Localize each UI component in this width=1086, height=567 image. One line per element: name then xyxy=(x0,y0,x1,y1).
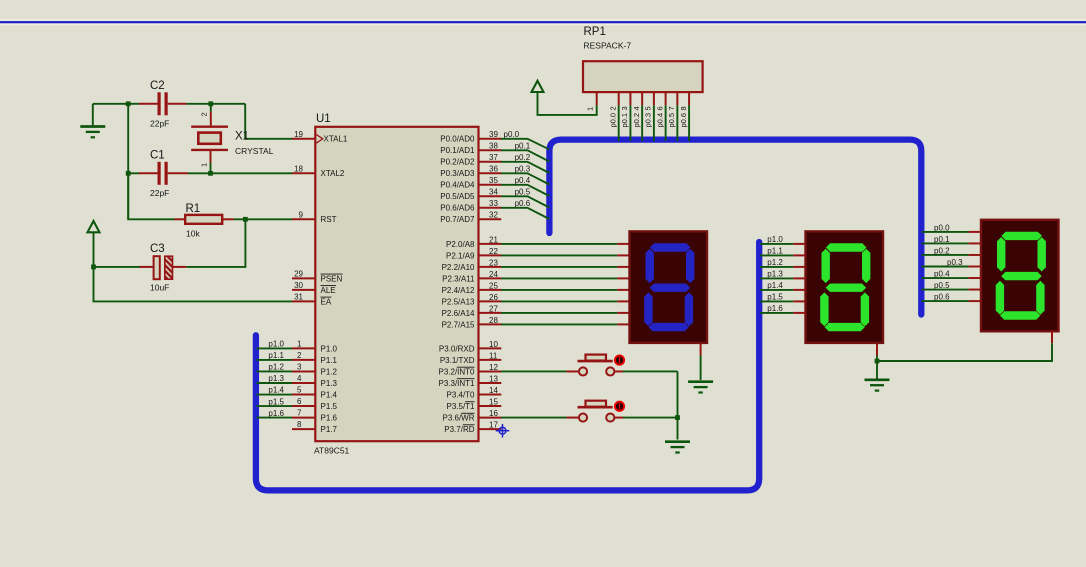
wire bus to DISP3 pin 2, net p0.1 xyxy=(922,242,969,244)
wire bus to DISP2 pin 5, net p1.4 xyxy=(760,289,793,291)
U1 right pin names xyxy=(438,135,475,434)
svg-text:p1.4: p1.4 xyxy=(268,386,284,395)
svg-text:R1: R1 xyxy=(186,203,201,215)
svg-text:31: 31 xyxy=(294,292,303,301)
svg-text:P1.1: P1.1 xyxy=(321,356,338,365)
svg-text:P1.6: P1.6 xyxy=(321,413,338,422)
7-segment display DISP1 body xyxy=(630,231,708,343)
svg-text:RESPACK-7: RESPACK-7 xyxy=(584,41,632,51)
svg-text:P3.3/INT1: P3.3/INT1 xyxy=(438,379,475,388)
wire bus to DISP3 pin 3, net p0.2 xyxy=(922,254,969,256)
svg-text:23: 23 xyxy=(489,258,498,267)
svg-text:4: 4 xyxy=(632,106,641,110)
svg-text:32: 32 xyxy=(489,211,498,220)
wire bus to DISP3 pin 4, net p0.3 xyxy=(922,265,969,267)
RP1 pin 8 stub + wire to bus, net p0.6 xyxy=(688,92,690,105)
wire ground to node A xyxy=(93,103,128,105)
svg-text:p1.1: p1.1 xyxy=(268,351,284,360)
wire P2.2 pin23 to 7-seg DISP1 xyxy=(501,266,617,268)
DISP1 digit segments xyxy=(644,243,694,331)
svg-text:C2: C2 xyxy=(150,80,165,92)
svg-text:2: 2 xyxy=(609,106,618,110)
wire C1 to XTAL2 pin xyxy=(188,172,292,174)
wire node to C1 xyxy=(128,172,139,174)
RP1 pin 2 stub + wire to bus, net p0.0 xyxy=(618,92,620,105)
wire P2.0 pin21 to 7-seg DISP1 xyxy=(501,243,617,245)
svg-text:p1.0: p1.0 xyxy=(767,235,783,244)
power terminal arrow (RP1) xyxy=(532,81,544,92)
capacitor C2 xyxy=(139,92,186,115)
wire R1 to RST xyxy=(234,218,292,220)
ground (DISP1) xyxy=(688,380,713,383)
svg-text:p1.5: p1.5 xyxy=(268,397,284,406)
svg-text:9: 9 xyxy=(299,210,304,219)
svg-text:P2.2/A10: P2.2/A10 xyxy=(442,263,475,272)
svg-text:U1: U1 xyxy=(316,113,331,125)
svg-text:1: 1 xyxy=(297,339,302,348)
U1 pin numbers left xyxy=(294,130,303,429)
svg-text:P0.1/AD1: P0.1/AD1 xyxy=(440,146,475,155)
svg-text:C1: C1 xyxy=(150,150,165,162)
svg-text:7: 7 xyxy=(667,106,676,110)
svg-text:7: 7 xyxy=(297,409,302,418)
svg-text:p1.2: p1.2 xyxy=(767,258,783,267)
svg-text:ALE: ALE xyxy=(321,286,336,295)
svg-text:p1.2: p1.2 xyxy=(268,363,284,372)
ground (top-left) xyxy=(92,104,94,126)
svg-text:p0.6: p0.6 xyxy=(515,199,531,208)
svg-text:p0.4: p0.4 xyxy=(655,113,664,128)
wire bus to DISP3 pin 7, net p0.6 xyxy=(922,300,969,302)
DISP3 digit segments xyxy=(996,232,1046,320)
svg-text:P2.5/A13: P2.5/A13 xyxy=(442,297,475,306)
wire P0.1 pin38 to bus xyxy=(501,150,549,161)
DISP2 common pin wire xyxy=(876,343,878,356)
svg-text:p0.4: p0.4 xyxy=(515,176,531,185)
RP1 pin 5 stub + wire to bus, net p0.3 xyxy=(653,92,655,105)
U1 active-low overlines (PSEN ALE EA) xyxy=(321,273,343,275)
svg-text:p0.0: p0.0 xyxy=(609,113,618,128)
ground (DISP2 DISP3) xyxy=(865,378,890,381)
svg-text:p1.1: p1.1 xyxy=(767,246,783,255)
svg-text:19: 19 xyxy=(294,130,303,139)
svg-text:26: 26 xyxy=(489,293,498,302)
wire P2.3 pin24 to 7-seg DISP1 xyxy=(501,277,617,279)
top blue border line xyxy=(0,19,1086,21)
svg-text:2: 2 xyxy=(200,112,209,116)
node A junction (C2 left column) xyxy=(126,101,131,106)
RP1 pin 7 stub + wire to bus, net p0.5 xyxy=(676,92,678,105)
svg-text:p0.3: p0.3 xyxy=(644,113,653,128)
node power column junction xyxy=(91,265,96,270)
wire down to XTAL1 and into U1 xyxy=(245,104,292,139)
svg-text:P0.3/AD3: P0.3/AD3 xyxy=(440,169,475,178)
wire bus to DISP2 pin 2, net p1.1 xyxy=(760,254,793,256)
svg-text:p1.6: p1.6 xyxy=(268,409,284,418)
svg-text:P3.5/T1: P3.5/T1 xyxy=(446,402,475,411)
svg-text:15: 15 xyxy=(489,397,498,406)
svg-text:P1.0: P1.0 xyxy=(321,344,338,353)
svg-text:p0.2: p0.2 xyxy=(632,113,641,128)
svg-text:4: 4 xyxy=(297,374,302,383)
svg-text:P3.2/INT0: P3.2/INT0 xyxy=(438,367,475,376)
svg-text:6: 6 xyxy=(655,106,664,110)
svg-text:5: 5 xyxy=(297,386,302,395)
svg-text:10uF: 10uF xyxy=(150,283,169,293)
svg-text:p0.5: p0.5 xyxy=(515,188,531,197)
svg-text:25: 25 xyxy=(489,281,498,290)
wire C2 to crystal-top node xyxy=(186,103,245,105)
svg-text:28: 28 xyxy=(489,316,498,325)
svg-text:RST: RST xyxy=(321,215,337,224)
svg-text:AT89C51: AT89C51 xyxy=(314,446,350,456)
svg-text:P2.0/A8: P2.0/A8 xyxy=(446,240,475,249)
svg-text:P2.4/A12: P2.4/A12 xyxy=(442,286,475,295)
XTAL1 clock symbol xyxy=(316,135,323,144)
svg-text:27: 27 xyxy=(489,304,498,313)
svg-text:1: 1 xyxy=(585,107,594,111)
wire P3.2 pin12 to button S1 xyxy=(501,370,567,372)
wire power arrow down and to EA pin xyxy=(94,233,293,302)
svg-text:P2.6/A14: P2.6/A14 xyxy=(442,309,475,318)
capacitor C3 (electrolytic) xyxy=(139,256,186,279)
svg-text:13: 13 xyxy=(489,374,498,383)
wire bus to P1.5 pin6, net p1.5 xyxy=(257,405,293,407)
RP1 pin 3 stub + wire to bus, net p0.1 xyxy=(629,92,631,105)
svg-text:38: 38 xyxy=(489,142,498,151)
wire P0.6 pin33 to bus xyxy=(501,208,549,219)
S1 (INT0) interactive indicator xyxy=(615,356,624,365)
RP1 pin 1 stub and wire to power arrow xyxy=(596,92,598,105)
svg-text:P0.6/AD6: P0.6/AD6 xyxy=(440,204,475,213)
svg-text:p0.3: p0.3 xyxy=(947,258,963,267)
resistor R1 xyxy=(175,215,234,224)
wire bus to DISP2 pin 6, net p1.5 xyxy=(760,300,793,302)
svg-text:P0.0/AD0: P0.0/AD0 xyxy=(440,135,475,144)
svg-text:P0.4/AD4: P0.4/AD4 xyxy=(440,181,475,190)
svg-text:8: 8 xyxy=(679,106,688,110)
op-amp U1 body AT89C51 xyxy=(315,127,478,441)
wire bus to P1.4 pin5, net p1.4 xyxy=(257,394,293,396)
svg-text:P0.2/AD2: P0.2/AD2 xyxy=(440,158,475,167)
svg-text:p0.6: p0.6 xyxy=(934,293,950,302)
wire bus to DISP3 pin 5, net p0.4 xyxy=(922,277,969,279)
U1 left pin names xyxy=(321,135,348,434)
svg-text:10k: 10k xyxy=(186,229,200,239)
svg-text:p0.2: p0.2 xyxy=(934,247,950,256)
power terminal arrow (left) xyxy=(88,221,100,232)
DISP2 digit segments xyxy=(820,243,870,331)
svg-text:P0.5/AD5: P0.5/AD5 xyxy=(440,192,475,201)
wire left column down to R1 row xyxy=(128,173,175,219)
wire button S2 to ground column xyxy=(623,417,678,419)
svg-text:P1.5: P1.5 xyxy=(321,402,338,411)
svg-text:29: 29 xyxy=(294,269,303,278)
svg-text:3: 3 xyxy=(297,362,302,371)
wire P0.5 pin34 to bus xyxy=(501,196,549,207)
U1 right pin stubs xyxy=(479,139,502,429)
svg-text:10: 10 xyxy=(489,340,498,349)
svg-text:p0.2: p0.2 xyxy=(515,153,531,162)
svg-text:XTAL1: XTAL1 xyxy=(324,135,348,144)
wire P2.5 pin26 to 7-seg DISP1 xyxy=(501,300,617,302)
wire bus to P1.2 pin3, net p1.2 xyxy=(257,370,293,372)
wire bus to DISP3 pin 6, net p0.5 xyxy=(922,289,969,291)
wire bus to DISP3 pin 1, net p0.0 xyxy=(922,231,969,233)
wire bus to DISP2 pin 3, net p1.2 xyxy=(760,266,793,268)
svg-text:8: 8 xyxy=(297,420,302,429)
svg-text:6: 6 xyxy=(297,397,302,406)
resistor-pack RP1 body xyxy=(583,61,703,92)
wire buttons ground column xyxy=(677,371,679,439)
svg-text:P2.3/A11: P2.3/A11 xyxy=(442,274,475,283)
DISP3 common pin wire to shared ground xyxy=(1051,331,1053,344)
svg-text:p0.5: p0.5 xyxy=(667,113,676,128)
U1 active-low overlines (INT0 INT1 T1 WR RD) xyxy=(457,366,475,368)
svg-text:P2.7/A15: P2.7/A15 xyxy=(442,320,475,329)
7-segment display DISP2 body xyxy=(806,231,884,343)
wire P2.1 pin22 to 7-seg DISP1 xyxy=(501,254,617,256)
svg-text:P2.1/A9: P2.1/A9 xyxy=(446,251,475,260)
wire bus to P1.3 pin4, net p1.3 xyxy=(257,382,293,384)
svg-text:11: 11 xyxy=(489,351,498,360)
wire P0.3 pin36 to bus xyxy=(501,173,549,184)
S2 (WR) interactive indicator xyxy=(615,402,624,411)
U1 left pin stubs xyxy=(292,139,315,429)
svg-text:39: 39 xyxy=(489,130,498,139)
svg-text:P3.4/T0: P3.4/T0 xyxy=(446,390,475,399)
svg-text:p0.5: p0.5 xyxy=(934,281,950,290)
wire bus to P1.0 pin1, net p1.0 xyxy=(257,347,293,349)
svg-text:P3.6/WR: P3.6/WR xyxy=(442,413,474,422)
svg-text:p1.3: p1.3 xyxy=(268,374,284,383)
wire P2.7 pin28 to 7-seg DISP1 xyxy=(501,323,617,325)
wire P0.0 pin39 to bus xyxy=(501,139,549,150)
wire bus to DISP2 pin 1, net p1.0 xyxy=(760,243,793,245)
U1 pin numbers right xyxy=(489,130,498,429)
svg-text:22pF: 22pF xyxy=(150,188,169,198)
bus P0 (top, thick blue) xyxy=(549,140,921,315)
wire P3.6 pin16 to button S2 xyxy=(501,417,567,419)
svg-text:p0.6: p0.6 xyxy=(679,113,688,128)
wire bus to P1.6 pin7, net p1.6 xyxy=(257,417,293,419)
node crystal-top junction xyxy=(208,101,213,106)
svg-text:36: 36 xyxy=(489,165,498,174)
RP1 pin 6 stub + wire to bus, net p0.4 xyxy=(665,92,667,105)
svg-text:PSEN: PSEN xyxy=(321,274,343,283)
svg-text:2: 2 xyxy=(297,351,302,360)
svg-text:22pF: 22pF xyxy=(150,119,169,129)
node buttons junction xyxy=(675,415,680,420)
svg-text:5: 5 xyxy=(644,106,653,110)
wire bus to P1.1 pin2, net p1.1 xyxy=(257,359,293,361)
7-segment display DISP3 body xyxy=(981,220,1059,331)
wire node A to C2 xyxy=(128,103,139,105)
svg-text:p1.6: p1.6 xyxy=(767,304,783,313)
node C1 junction xyxy=(126,171,131,176)
svg-text:24: 24 xyxy=(489,270,498,279)
svg-text:P3.1/TXD: P3.1/TXD xyxy=(440,356,475,365)
svg-text:X1: X1 xyxy=(235,131,249,143)
node crystal-bottom junction xyxy=(208,171,213,176)
wire button S1 to ground column xyxy=(623,370,678,372)
svg-text:p1.0: p1.0 xyxy=(268,340,284,349)
svg-text:1: 1 xyxy=(200,163,209,167)
wire bus to DISP2 pin 7, net p1.6 xyxy=(760,312,793,314)
RP1 pin 4 stub + wire to bus, net p0.2 xyxy=(641,92,643,105)
svg-text:P1.4: P1.4 xyxy=(321,390,338,399)
svg-text:21: 21 xyxy=(489,235,498,244)
svg-text:RP1: RP1 xyxy=(584,26,606,38)
svg-text:p0.4: p0.4 xyxy=(934,270,950,279)
svg-text:CRYSTAL: CRYSTAL xyxy=(235,146,274,156)
svg-text:p0.3: p0.3 xyxy=(515,165,531,174)
svg-text:XTAL2: XTAL2 xyxy=(321,169,345,178)
wire P2.6 pin27 to 7-seg DISP1 xyxy=(501,312,617,314)
DISP1 common pin wire to ground xyxy=(700,343,702,356)
svg-text:P3.7/RD: P3.7/RD xyxy=(444,425,474,434)
svg-text:35: 35 xyxy=(489,176,498,185)
svg-text:22: 22 xyxy=(489,247,498,256)
svg-text:33: 33 xyxy=(489,199,498,208)
svg-text:P3.0/RXD: P3.0/RXD xyxy=(439,344,475,353)
svg-text:P1.7: P1.7 xyxy=(321,425,338,434)
crystal X1 xyxy=(191,104,228,174)
svg-text:30: 30 xyxy=(294,281,303,290)
push-button S1 (INT0) xyxy=(567,355,624,376)
wire bus to DISP2 pin 4, net p1.3 xyxy=(760,277,793,279)
svg-text:14: 14 xyxy=(489,386,498,395)
svg-text:12: 12 xyxy=(489,363,498,372)
svg-text:p0.1: p0.1 xyxy=(515,142,531,151)
ground (buttons) xyxy=(665,440,690,443)
wire P0.4 pin35 to bus xyxy=(501,185,549,196)
svg-text:C3: C3 xyxy=(150,243,165,255)
wire P0.2 pin37 to bus xyxy=(501,162,549,173)
node R1-right junction xyxy=(243,217,248,222)
bus P1 (bottom, thick blue) xyxy=(256,242,759,490)
push-button S2 (WR) xyxy=(567,401,624,422)
wire P2.4 pin25 to 7-seg DISP1 xyxy=(501,289,617,291)
svg-text:p0.0: p0.0 xyxy=(934,224,950,233)
svg-text:p0.0: p0.0 xyxy=(504,130,520,139)
wire vertical C2-C1 column xyxy=(127,104,129,220)
svg-text:16: 16 xyxy=(489,409,498,418)
capacitor C1 xyxy=(139,162,188,185)
svg-text:3: 3 xyxy=(620,106,629,110)
svg-text:p0.1: p0.1 xyxy=(934,235,950,244)
svg-text:17: 17 xyxy=(489,421,498,430)
node DISP2/DISP3 ground junction xyxy=(875,359,880,364)
mouse crosshair cursor at pin 17 xyxy=(496,424,510,438)
wire C3 to power-arrow column xyxy=(94,266,140,268)
svg-text:34: 34 xyxy=(489,188,498,197)
svg-text:P1.3: P1.3 xyxy=(321,379,338,388)
svg-text:p1.5: p1.5 xyxy=(767,292,783,301)
svg-text:18: 18 xyxy=(294,164,303,173)
svg-text:p1.4: p1.4 xyxy=(767,281,783,290)
svg-text:p1.3: p1.3 xyxy=(767,269,783,278)
svg-text:P0.7/AD7: P0.7/AD7 xyxy=(440,215,475,224)
svg-text:37: 37 xyxy=(489,153,498,162)
svg-text:P1.2: P1.2 xyxy=(321,367,338,376)
svg-text:EA: EA xyxy=(321,297,332,306)
svg-text:p0.1: p0.1 xyxy=(620,113,629,128)
wire junction down to C3 row xyxy=(186,219,245,267)
